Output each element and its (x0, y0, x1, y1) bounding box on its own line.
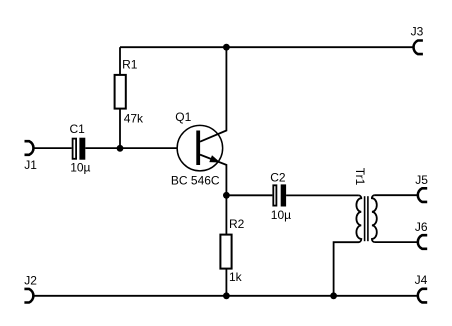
node emitter junction (223, 192, 230, 199)
node R2-rail junction (223, 292, 230, 299)
wire R2 top lead (225, 195, 227, 234)
resistor R1 (115, 75, 126, 109)
svg-text:BC 546C: BC 546C (171, 173, 220, 187)
wire Tr1 secondary to J6 (375, 241, 418, 243)
svg-text:10µ: 10µ (271, 208, 291, 222)
svg-text:Tr1: Tr1 (353, 168, 367, 186)
svg-text:J4: J4 (415, 273, 428, 287)
jack J2 (24, 289, 33, 303)
node base junction (117, 145, 124, 152)
svg-text:J5: J5 (415, 173, 428, 187)
svg-text:1k: 1k (229, 270, 243, 284)
resistor R2 (220, 235, 231, 269)
wire J1 to C1 (34, 147, 72, 149)
svg-text:C2: C2 (270, 170, 286, 184)
svg-text:R2: R2 (229, 217, 245, 231)
wire C2 to Tr1 primary (286, 194, 359, 196)
node Tr1-rail junction (330, 292, 337, 299)
capacitor C1 (73, 138, 86, 160)
wire Tr1 secondary to J5 (375, 194, 418, 196)
jack J1 (25, 141, 34, 155)
svg-text:J6: J6 (415, 220, 428, 234)
wire R1 top lead (119, 47, 121, 75)
jack J4 (418, 289, 427, 303)
wire emitter down (200, 155, 226, 196)
svg-text:J3: J3 (411, 25, 424, 39)
capacitor C2 (273, 184, 286, 206)
wire top rail (120, 46, 414, 48)
jack J3 (414, 41, 423, 55)
node collector-rail junction (223, 44, 230, 51)
jack J6 (418, 235, 427, 249)
svg-text:J1: J1 (24, 158, 37, 172)
svg-text:J2: J2 (24, 273, 37, 287)
wire R2 bottom lead (225, 269, 227, 296)
svg-text:10µ: 10µ (70, 161, 90, 175)
jack J5 (418, 188, 427, 202)
transistor Q1 (177, 125, 223, 171)
svg-text:R1: R1 (122, 57, 138, 71)
wire collector to rail (200, 47, 226, 142)
wire emitter node to C2 (226, 194, 272, 196)
wire bottom rail (33, 295, 417, 297)
svg-text:Q1: Q1 (175, 110, 191, 124)
svg-text:47k: 47k (124, 112, 144, 126)
transformer Tr1 (334, 195, 377, 296)
wire C1 to Q1 base (85, 147, 176, 149)
svg-text:C1: C1 (70, 122, 86, 136)
wire R1 bottom lead (119, 109, 121, 149)
